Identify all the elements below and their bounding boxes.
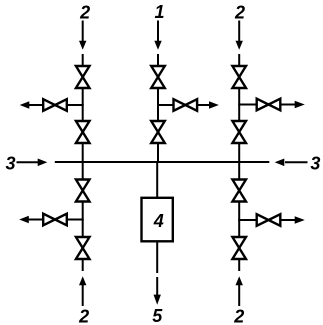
svg-text:1: 1 [154,2,164,22]
flow arrow down (top left inlet) [79,21,86,50]
pipe (right column to right branch valve) [238,104,256,106]
pipe (left column, V2 to header) [82,143,84,163]
pipe (center column to center branch valve) [157,104,173,106]
valve H3 (top-right branch) [257,99,281,111]
pipe (left column, header to valve V7) [82,161,84,180]
valve V2 (left column lower-upper) [76,121,90,143]
svg-text:2: 2 [78,306,89,325]
valve V5 (right column upper) [232,66,246,88]
pipe (top-left branch to left column) [67,104,84,106]
apparatus box 4 [142,198,173,242]
pipe (left column, V1 to V2 through branch node) [82,88,84,121]
valve V1 (left column upper) [76,66,90,88]
valve H2 (top-center branch) [174,99,198,111]
valve V3 (center column upper) [151,66,165,88]
pipe (center column, header to apparatus box) [156,161,158,199]
valve V10 (right column bottom) [232,237,246,259]
flow arrow down (bottom center outlet) [154,277,161,305]
valve H4 (bottom-left branch) [43,214,67,226]
outlet arrow right (bottom-right branch) [281,216,305,223]
svg-text:2: 2 [234,2,245,22]
pipe (center column, box to outlet) [156,241,158,273]
flow arrow up (bottom left inlet) [79,276,86,306]
valve H1 (top-left branch) [43,99,67,111]
pipe (right column, header to valve V9) [238,161,240,180]
valve V4 (center column lower-upper) [151,121,165,143]
outlet arrow left (bottom-left branch) [19,216,42,223]
pipe (left column, inlet to valve V1) [82,54,84,66]
svg-text:2: 2 [233,306,244,325]
flow arrow up (bottom right inlet) [236,276,243,306]
valve V6 (right column lower-upper) [232,121,246,143]
svg-text:3: 3 [310,154,320,174]
flow arrow left (right header inlet) [275,159,308,167]
valve V7 (left column lower) [76,180,90,202]
flow arrow right (left header inlet) [17,159,48,167]
flow arrow down (top right inlet) [236,21,243,50]
pipe (right column, V5 to V6 through branch node) [238,88,240,121]
valve H5 (bottom-right branch) [257,214,281,226]
outlet arrow right (top-right branch) [281,101,305,108]
valve V8 (left column bottom) [76,237,90,259]
pipe (center column, inlet to valve V3) [157,54,159,66]
svg-text:4: 4 [153,211,164,231]
pipe (bottom-left branch to left column) [67,219,84,221]
pipe (right column, V6 to header) [238,143,240,163]
flow arrow down (top center inlet) [154,21,161,50]
outlet arrow right (top-center branch) [197,101,219,108]
main header pipe [55,161,269,163]
pipe stub (left column below V8) [82,259,84,271]
svg-text:3: 3 [5,154,15,174]
pipe stub (right column below V10) [238,259,240,271]
svg-text:2: 2 [79,2,90,22]
pipe (right column, inlet to valve V5) [238,54,240,66]
pipe (right column, V9 to V10 through branch node) [238,202,240,238]
pipe (center column, V4 to header) [157,143,159,163]
pipe (left column, V7 to V8 through branch node) [82,202,84,238]
svg-text:5: 5 [152,306,163,325]
outlet arrow left (top-left branch) [20,101,43,108]
pipe (right column to bottom-right branch valve) [238,219,256,221]
valve V9 (right column lower) [232,180,246,202]
pipe (center column, V3 to V4 through branch node) [157,88,159,121]
